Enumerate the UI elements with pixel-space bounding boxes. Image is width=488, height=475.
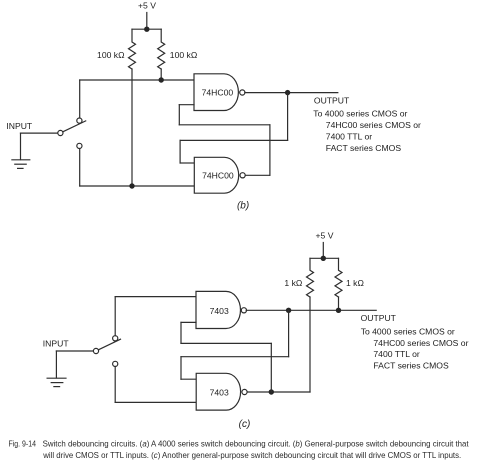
svg-text:100 kΩ: 100 kΩ xyxy=(97,50,125,60)
switch arm (b) xyxy=(63,121,86,132)
svg-text:+5 V: +5 V xyxy=(316,230,334,240)
wire U2 output right xyxy=(245,174,270,176)
wire lower line to U4 input B xyxy=(115,401,196,403)
svg-text:74HC00: 74HC00 xyxy=(202,171,234,181)
wire U1 output to OUTPUT xyxy=(245,92,338,94)
wire right 1k down to output line xyxy=(338,297,340,310)
svg-text:To 4000 series CMOS or: To 4000 series CMOS or xyxy=(313,109,407,119)
svg-text:Fig. 9-14: Fig. 9-14 xyxy=(9,440,37,449)
NAND gate U2 74HC00 (b bottom) xyxy=(194,157,238,193)
svg-text:FACT series CMOS: FACT series CMOS xyxy=(326,143,402,153)
switch upper throw contact (b) xyxy=(77,118,82,123)
wire upper contact up to upper line xyxy=(79,80,81,118)
svg-text:7400 TTL or: 7400 TTL or xyxy=(326,131,372,141)
svg-text:7403: 7403 xyxy=(210,388,229,398)
junction dot right resistor on upper line xyxy=(159,77,164,82)
wire input down to ground xyxy=(20,133,22,160)
wire lower contact down to lower line xyxy=(79,149,81,186)
wire feedback from U1 output down xyxy=(287,93,289,141)
resistor 100k right (b) xyxy=(158,29,165,69)
svg-text:OUTPUT: OUTPUT xyxy=(361,313,397,323)
wire feedback down to U2 input A xyxy=(179,140,181,163)
wire U3 output to OUTPUT (c) xyxy=(246,309,376,311)
NAND gate U3 7403 (c top) xyxy=(196,291,240,328)
wire rail between resistor tops xyxy=(132,28,161,30)
junction dot U1 output node xyxy=(285,90,290,95)
switch upper throw contact (c) xyxy=(113,336,118,341)
wire input to switch pole xyxy=(21,132,58,134)
svg-text:To 4000 series CMOS or: To 4000 series CMOS or xyxy=(361,327,455,337)
NAND gate U4 7403 (c bottom) xyxy=(196,373,240,410)
figure caption xyxy=(9,440,470,461)
wire feedback horizontal left lower (c) xyxy=(181,342,271,344)
wire feedback horizontal to left (lower) xyxy=(179,124,270,126)
wire feedback from U3 output down (c) xyxy=(288,310,290,356)
junction dot at +5V rail xyxy=(144,27,149,32)
wire into U4 input A (c) xyxy=(181,378,196,380)
wire feedback horizontal to left xyxy=(180,139,288,141)
resistor 1k left (c) xyxy=(307,258,314,297)
NAND gate U1 74HC00 (b top) xyxy=(194,74,238,111)
wire upper contact up (c) xyxy=(114,297,116,336)
svg-text:INPUT: INPUT xyxy=(6,121,33,131)
wire into U2 input A xyxy=(180,162,194,164)
U4 output bubble xyxy=(242,389,247,394)
wire rail between 1k resistors xyxy=(310,257,339,259)
wire upper line to U3 input A xyxy=(115,296,196,298)
wire left resistor down to lower line xyxy=(131,69,133,186)
switch arm (c) xyxy=(98,339,120,350)
switch pole contact (c) xyxy=(93,348,98,353)
wire feedback up to U1 input B xyxy=(178,105,180,125)
switch lower throw contact (c) xyxy=(113,361,118,366)
wire from +5V to rail (c) xyxy=(322,243,324,259)
ground symbol (b) xyxy=(12,160,30,169)
wire feedback down to U4 input A (c) xyxy=(180,357,182,380)
U1 output bubble xyxy=(240,90,245,95)
note text (c) xyxy=(361,327,469,371)
note text (b) xyxy=(313,109,421,153)
wire feedback horizontal left (c) xyxy=(181,356,289,358)
wire into U3 input B (c) xyxy=(181,321,196,323)
junction dot feedback on output line (c) xyxy=(286,308,291,313)
junction dot at +5V rail (c) xyxy=(321,256,326,261)
wire U2 output feedback up xyxy=(269,125,271,176)
resistor 100k left (b) xyxy=(129,29,136,69)
svg-text:Switch debouncing circuits. (a: Switch debouncing circuits. (a) A 4000 s… xyxy=(43,440,470,449)
wire U4 output right (c) xyxy=(247,391,310,393)
svg-text:74HC00 series CMOS or: 74HC00 series CMOS or xyxy=(326,120,421,130)
ground symbol (c) xyxy=(47,378,66,386)
svg-text:will drive CMOS or TTL inputs.: will drive CMOS or TTL inputs. (c) Anoth… xyxy=(42,451,461,460)
U2 output bubble xyxy=(240,173,245,178)
svg-text:100 kΩ: 100 kΩ xyxy=(170,50,198,60)
wire from +5V to rail xyxy=(146,13,148,30)
svg-text:1 kΩ: 1 kΩ xyxy=(346,278,364,288)
svg-text:+5 V: +5 V xyxy=(138,1,156,11)
wire lower contact down (c) xyxy=(114,367,116,403)
U3 output bubble xyxy=(241,308,246,313)
wire right resistor down to upper line xyxy=(160,69,162,80)
wire input down to ground (c) xyxy=(55,351,57,378)
svg-text:7403: 7403 xyxy=(210,306,229,316)
junction dot left resistor on lower line xyxy=(129,183,134,188)
switch pole contact (b) xyxy=(58,130,63,135)
wire into U1 input B xyxy=(179,104,194,106)
wire feedback up to U3 input B (c) xyxy=(180,322,182,343)
svg-text:(b): (b) xyxy=(237,200,249,211)
wire U4 feedback up (c) xyxy=(270,343,272,392)
svg-text:(c): (c) xyxy=(239,419,251,430)
svg-text:1 kΩ: 1 kΩ xyxy=(284,278,302,288)
svg-text:FACT series CMOS: FACT series CMOS xyxy=(373,361,449,371)
switch lower throw contact (b) xyxy=(77,143,82,148)
wire left 1k down to U4 output line xyxy=(309,297,311,392)
svg-text:OUTPUT: OUTPUT xyxy=(314,95,350,105)
resistor 1k right (c) xyxy=(335,258,342,297)
svg-text:74HC00 series CMOS or: 74HC00 series CMOS or xyxy=(373,338,468,348)
junction dot U4 output (c) xyxy=(269,389,274,394)
wire upper switch line to gate U1 input A xyxy=(80,79,194,81)
wire lower switch line to gate U2 input B xyxy=(80,185,195,187)
svg-text:74HC00: 74HC00 xyxy=(202,88,234,98)
wire input to switch pole (c) xyxy=(56,350,93,352)
svg-text:7400 TTL or: 7400 TTL or xyxy=(373,349,419,359)
svg-text:INPUT: INPUT xyxy=(43,338,70,348)
junction dot right 1k on output line (c) xyxy=(336,308,341,313)
